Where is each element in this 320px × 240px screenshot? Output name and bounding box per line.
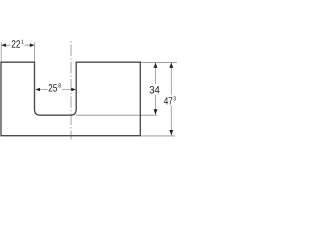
label 34 <box>150 86 160 93</box>
extension line left (above plate left edge) <box>0 42 2 61</box>
label 22.1 <box>12 40 24 48</box>
halo for label 25.8 <box>47 83 62 93</box>
label 47.3 <box>164 96 176 104</box>
plate outline with U-cutout <box>1 62 140 136</box>
halo for label 34 <box>148 84 160 95</box>
arrow right of dim 25.8 <box>71 88 76 92</box>
extension line top right (y=62.2) <box>141 61 177 63</box>
centerline (vertical dash-dot) <box>70 41 72 140</box>
halo for label 47.3 <box>163 95 177 105</box>
dimension line 34 (vertical, x=155.5) <box>155 62 157 114</box>
dimension line 47.3 (vertical, x=171.3) <box>170 62 172 135</box>
arrow top of dim 34 <box>154 63 158 68</box>
arrow left of dim 22.1 <box>1 43 6 47</box>
arrow left of dim 25.8 <box>36 88 41 92</box>
dimension line 25.8 (horizontal, y=89.5) <box>35 89 76 91</box>
halo for label 22.1 <box>11 39 25 49</box>
extension line middle right from cutout bottom (y=115.2) <box>76 114 157 116</box>
label 25.8 <box>49 83 61 91</box>
extension line above cutout left wall <box>34 42 36 61</box>
extension line bottom right (y=135.7) <box>141 135 175 137</box>
arrow bottom of dim 47.3 <box>169 130 173 135</box>
arrow right of dim 22.1 <box>30 43 35 47</box>
arrow bottom of dim 34 <box>154 109 158 114</box>
arrow top of dim 47.3 <box>169 63 173 68</box>
dimension line 22.1 (horizontal, y=45.2) <box>1 44 34 46</box>
